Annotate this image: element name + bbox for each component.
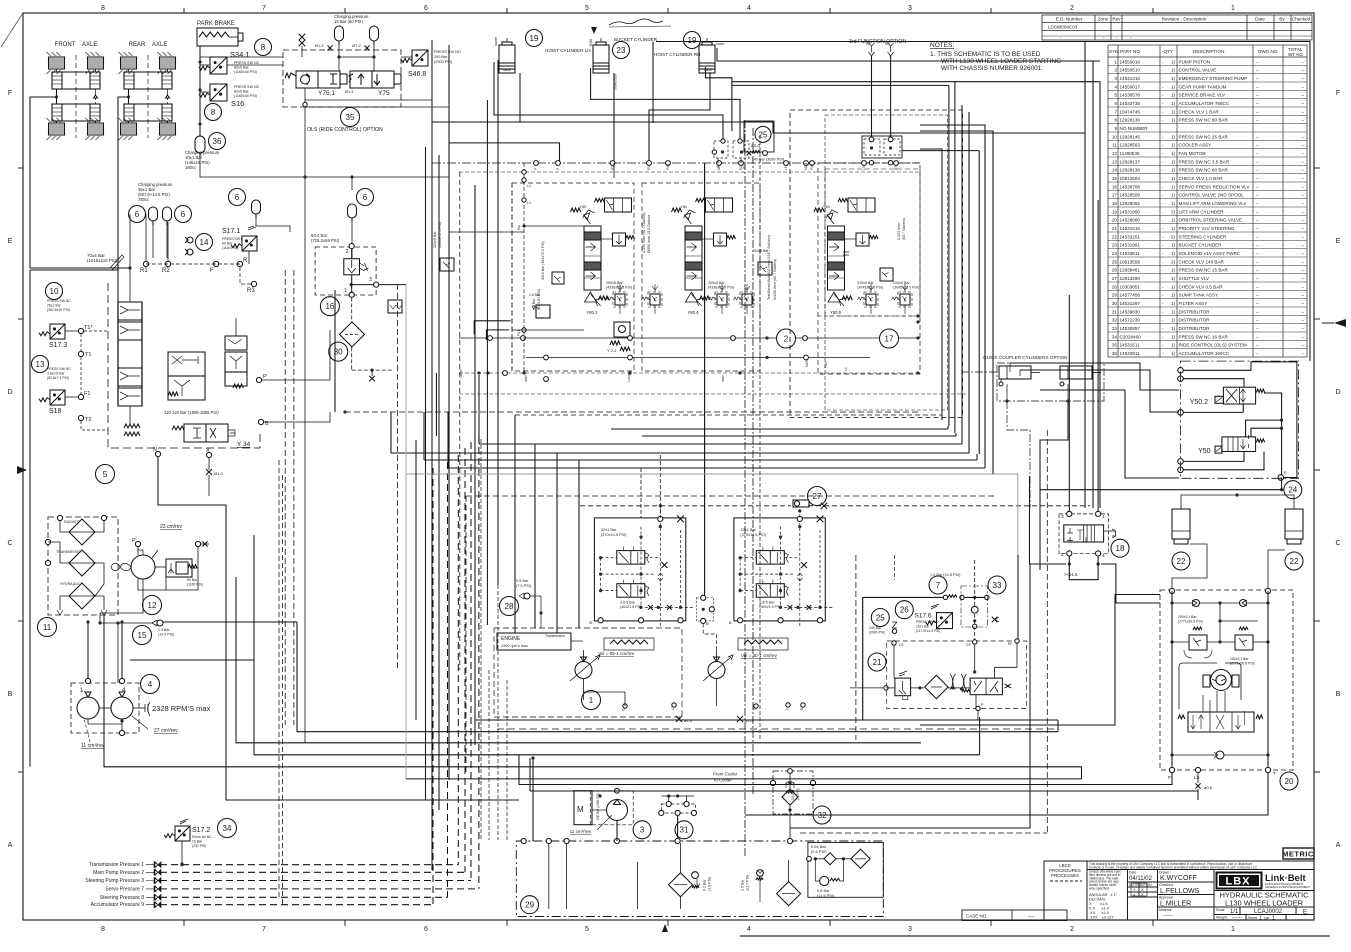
steering unit dashed box [1160, 590, 1293, 770]
svg-text:25: 25 [1112, 259, 1118, 264]
svg-text:(55 PSI): (55 PSI) [796, 788, 800, 800]
svg-text:14532811: 14532811 [1120, 351, 1141, 356]
rear axle wheels row 0 [119, 52, 137, 74]
internal dashed [740, 557, 756, 559]
spring [1256, 389, 1264, 392]
svg-text:C2028460: C2028460 [1120, 334, 1142, 339]
svg-text:19: 19 [1112, 209, 1118, 214]
wire vert x391 [390, 412, 392, 453]
svg-text:3.8 Bar: 3.8 Bar [791, 789, 795, 800]
wire nest y436 [642, 435, 956, 437]
hoist cylinder [600, 38, 602, 42]
dash-dot bus x745 [744, 120, 746, 858]
svg-text:1: 1 [1231, 5, 1235, 12]
front axle centerline [75, 55, 77, 138]
dash-dot bus x753 [752, 128, 754, 795]
svg-text:R: R [1284, 471, 1287, 475]
svg-text:WT KG: WT KG [1288, 52, 1303, 57]
svg-text:--: -- [1256, 76, 1260, 81]
svg-text:14528660: 14528660 [1120, 218, 1141, 223]
svg-text:--: -- [1256, 276, 1260, 281]
svg-text:17: 17 [1112, 193, 1118, 198]
svg-text:wise specified.: wise specified. [1089, 887, 1110, 891]
svg-text:(2.9 PSI): (2.9 PSI) [707, 877, 711, 891]
svg-text:14530857: 14530857 [1120, 326, 1141, 331]
svg-text:Lower: Lower [627, 372, 631, 382]
svg-text:6: 6 [135, 210, 140, 219]
relief valve 300a [715, 292, 729, 307]
svg-text:ACCUMULATOR 160CC: ACCUMULATOR 160CC [1179, 351, 1230, 356]
svg-text:X: X [1141, 892, 1144, 897]
svg-text:CHECK VLV 1 BAR: CHECK VLV 1 BAR [1179, 109, 1220, 114]
svg-text:0.5 Bar: 0.5 Bar [516, 579, 529, 583]
qc cylinder 1 [999, 366, 1031, 379]
svg-text:1): 1) [1171, 109, 1176, 114]
svg-text:(21.7 PSI): (21.7 PSI) [746, 875, 750, 891]
svg-text:Ø7.2: Ø7.2 [352, 43, 361, 48]
svg-text:Date: Date [1255, 17, 1265, 22]
svg-text:110-120 Bar (1595-1885 PSI): 110-120 Bar (1595-1885 PSI) [164, 410, 219, 415]
svg-text:Steering Pressure 8: Steering Pressure 8 [100, 895, 144, 901]
svg-text:------: ------ [1163, 913, 1173, 919]
valve section 2 boundary [642, 183, 760, 371]
steering cylinder [1172, 509, 1190, 539]
svg-text:14530578: 14530578 [1120, 93, 1141, 98]
sump tank boundary [516, 841, 883, 917]
svg-text:--: -- [1256, 268, 1260, 273]
svg-text:21: 21 [1112, 226, 1118, 231]
svg-text:--: -- [1301, 259, 1305, 264]
wire vert x557 [556, 453, 558, 633]
valve section 1 boundary [512, 183, 634, 371]
svg-text:17: 17 [885, 334, 894, 343]
svg-text:LCAJ0002: LCAJ0002 [1254, 909, 1283, 915]
circle 20 [1280, 772, 1298, 790]
section 4 pilot [685, 213, 692, 224]
upper dashed line [459, 171, 920, 173]
circle 15 + check [133, 626, 152, 645]
reducing valve [895, 678, 911, 696]
svg-text:Checked: Checked [1159, 883, 1173, 887]
wire fan drop [100, 596, 143, 623]
svg-text:200 Bar: 200 Bar [434, 55, 448, 59]
svg-text:(1160 PSI): (1160 PSI) [187, 583, 203, 587]
svg-text:3: 3 [1114, 76, 1117, 81]
bottom ports [598, 618, 603, 623]
svg-text:11 cm³/rev: 11 cm³/rev [81, 743, 105, 749]
servo solenoid valve [617, 584, 645, 598]
svg-text:--: -- [1301, 209, 1305, 214]
svg-text:14572230: 14572230 [1120, 318, 1141, 323]
svg-text:1): 1) [1171, 168, 1176, 173]
wire right mid verticals [1039, 495, 1041, 570]
valve section 17 boundary [818, 163, 920, 374]
svg-text:PRESS SW NC 3.5 BAR: PRESS SW NC 3.5 BAR [1179, 159, 1230, 164]
svg-text:--: -- [1301, 151, 1305, 156]
svg-text:16: 16 [1112, 184, 1118, 189]
hoist cylinder RH [684, 32, 701, 49]
svg-text:L3: L3 [862, 166, 866, 170]
svg-text:T1: T1 [85, 352, 91, 358]
svg-text:750cc: 750cc [138, 197, 149, 202]
svg-text:200±3.1 Bar: 200±3.1 Bar [1178, 615, 1197, 619]
svg-text:(63.7 Gal/min): (63.7 Gal/min) [902, 218, 906, 240]
svg-text:160cc: 160cc [185, 165, 196, 170]
svg-text:--: -- [1256, 351, 1260, 356]
svg-text:14531990: 14531990 [1120, 209, 1141, 214]
svg-text:(1015±116 PSI): (1015±116 PSI) [87, 258, 118, 263]
svg-text:--: -- [1301, 343, 1305, 348]
wires valve stack [129, 214, 131, 286]
svg-text:ANGULAR ± 1°: ANGULAR ± 1° [1089, 893, 1118, 897]
top dash-dot bus [432, 162, 920, 164]
cooler ports [57, 515, 62, 520]
svg-text:Sheet: Sheet [1248, 916, 1257, 920]
main pump 2 [708, 662, 725, 679]
ports [1067, 511, 1072, 516]
svg-text:(2771±50.8 PSI): (2771±50.8 PSI) [1178, 620, 1203, 624]
accumulator [348, 204, 357, 218]
svg-text:2: 2 [1070, 926, 1074, 933]
svg-text:PRESS SW NC 80 BAR: PRESS SW NC 80 BAR [1179, 118, 1229, 123]
svg-text:FILTER ASSY: FILTER ASSY [1179, 301, 1208, 306]
svg-text:(725.2±58 PSI): (725.2±58 PSI) [311, 238, 340, 243]
svg-text:PRESS SW NC 80 BAR: PRESS SW NC 80 BAR [1179, 168, 1229, 173]
svg-text:5: 5 [585, 5, 589, 12]
svg-text:Approval: Approval [1159, 896, 1173, 900]
port X [206, 452, 211, 457]
control valve section 2 spool [584, 226, 601, 290]
svg-text:E2: E2 [743, 165, 747, 169]
centering marks [591, 27, 597, 34]
svg-text:4: 4 [148, 680, 153, 689]
svg-text:140 Bar (3030 PSI): 140 Bar (3030 PSI) [752, 158, 785, 162]
circle 6 [175, 206, 192, 223]
svg-text:DISTRIBUTOR: DISTRIBUTOR [1179, 309, 1211, 314]
svg-text:23: 23 [1112, 243, 1118, 248]
bottom extra line [740, 935, 1330, 937]
svg-text:(11.5 PSI): (11.5 PSI) [817, 893, 835, 898]
svg-text:PROCESSES: PROCESSES [1051, 873, 1079, 878]
svg-text:14577458: 14577458 [1120, 293, 1141, 298]
wire vert x535 [534, 444, 536, 628]
svg-text:--: -- [1301, 243, 1305, 248]
side rails [1171, 591, 1173, 770]
wire x1030 down [790, 564, 1030, 828]
svg-text:(4336±72.5 PSI): (4336±72.5 PSI) [606, 286, 632, 290]
dash-dot boundary 24 [1181, 361, 1299, 478]
relief valve 300b [740, 292, 754, 307]
wire port3 up [1068, 295, 1070, 511]
wire port1 up [1097, 200, 1099, 511]
svg-text:10: 10 [1112, 134, 1118, 139]
steering cylinder [1285, 509, 1303, 539]
relief lever [110, 255, 124, 270]
filter diamond [925, 675, 948, 698]
svg-text:31: 31 [1112, 309, 1118, 314]
svg-text:C: C [1335, 540, 1340, 547]
svg-text:--: -- [1301, 234, 1305, 239]
circle 4 [141, 675, 160, 694]
svg-text:14531297: 14531297 [1120, 301, 1141, 306]
left bus lines [431, 40, 433, 870]
accumulator [370, 26, 379, 41]
pump 2 [111, 697, 133, 719]
svg-text:(0.6 PSI): (0.6 PSI) [811, 849, 827, 854]
svg-text:11490536: 11490536 [1120, 151, 1141, 156]
servo group box [594, 518, 685, 621]
svg-text:1): 1) [1171, 159, 1176, 164]
svg-text:Wp: Wp [517, 225, 521, 230]
svg-text:lower: lower [716, 42, 725, 46]
fan box [130, 659, 254, 661]
svg-text:3: 3 [369, 277, 372, 283]
svg-text:QUICK COUPLER CYLINDERS OPTION: QUICK COUPLER CYLINDERS OPTION [983, 355, 1068, 360]
svg-text:PRESS SW NC: PRESS SW NC [234, 61, 260, 65]
svg-text:29: 29 [525, 901, 534, 910]
svg-text:S17.2: S17.2 [192, 827, 210, 834]
svg-text:Date: Date [1129, 871, 1136, 875]
svg-text:(7.3 PSI): (7.3 PSI) [516, 584, 532, 588]
svg-text:6: 6 [363, 193, 368, 202]
circle 18 [1111, 539, 1129, 557]
svg-text:--: -- [1256, 193, 1260, 198]
dashed rows lower [459, 393, 966, 395]
tank internal verticals [548, 843, 550, 909]
wire nest y429 [611, 428, 948, 430]
svg-text:(1160±40 PSI): (1160±40 PSI) [234, 70, 257, 74]
svg-text:14533738: 14533738 [1120, 101, 1141, 106]
accumulator [335, 26, 344, 41]
svg-text:--: -- [1256, 201, 1260, 206]
svg-text:30: 30 [1112, 301, 1118, 306]
wire S34 right to OLS [227, 64, 283, 66]
svg-text:28: 28 [1112, 284, 1118, 289]
svg-text:34: 34 [223, 824, 232, 833]
port N [155, 451, 160, 456]
orifice 0.8 [1195, 783, 1200, 788]
svg-text:04/11/02: 04/11/02 [1129, 876, 1153, 882]
wire top right x1100 [955, 82, 1100, 508]
svg-text:F: F [210, 268, 214, 274]
wire bucket raise [613, 73, 615, 163]
pump control spring [744, 640, 782, 644]
section 5 pilot [827, 213, 834, 224]
svg-text:A2: A2 [716, 164, 720, 168]
extra verticals left [284, 270, 286, 725]
svg-text:9: 9 [1114, 126, 1117, 131]
svg-text:29: 29 [1112, 293, 1118, 298]
circle 28 + check [500, 597, 519, 616]
svg-text:200±5 Bar: 200±5 Bar [606, 281, 623, 285]
scribble note [609, 19, 663, 25]
rear axle housing row 1 [124, 104, 172, 121]
svg-text:14531991: 14531991 [1120, 243, 1141, 248]
section 4 bypass valve [706, 198, 733, 212]
svg-text:><ø1.6: ><ø1.6 [1064, 572, 1078, 577]
pilot dashed vertical x524 [523, 163, 525, 373]
svg-text:34: 34 [1112, 334, 1118, 339]
svg-text:1): 1) [1171, 301, 1176, 306]
rear axle wheels row 1 [119, 118, 137, 140]
svg-text:(2171±50.8 PSI): (2171±50.8 PSI) [1230, 662, 1255, 666]
stack springs [124, 424, 140, 428]
svg-text:1): 1) [1171, 243, 1176, 248]
svg-text:2: 2 [1070, 5, 1074, 12]
circle 2 [777, 329, 796, 348]
svg-text:--: -- [1301, 318, 1305, 323]
svg-text:L1: L1 [527, 184, 531, 188]
main pump 1 [575, 662, 592, 679]
circle 17 [880, 329, 899, 348]
svg-text:12: 12 [1112, 151, 1118, 156]
pressure switch S46.8 [401, 50, 428, 66]
svg-text:10613558: 10613558 [1120, 259, 1141, 264]
wire hoist LH lower [494, 62, 723, 141]
svg-text:--: -- [1301, 68, 1305, 73]
svg-text:200±5 Bar: 200±5 Bar [753, 249, 769, 253]
svg-text:EMERGENCY STEERING PUMP: EMERGENCY STEERING PUMP [1179, 76, 1248, 81]
wire bus y720 [475, 719, 1058, 721]
svg-text:--: -- [1301, 276, 1305, 281]
R1 R2 ports [143, 261, 148, 266]
svg-text:26: 26 [900, 606, 909, 615]
svg-text:10812504: 10812504 [1120, 176, 1141, 181]
wire Y50 region left [1010, 363, 1179, 390]
wire vert x466 dash [465, 496, 467, 772]
svg-text:24: 24 [1288, 486, 1297, 495]
section 5 compensator [856, 233, 869, 246]
svg-text:5: 5 [1114, 93, 1117, 98]
vent X [677, 516, 684, 523]
cooler wires [60, 521, 69, 532]
svg-text:LBX: LBX [1226, 876, 1251, 888]
port P [135, 541, 140, 546]
servo group box [734, 518, 825, 621]
svg-text:(2900 PSI): (2900 PSI) [434, 60, 453, 64]
spring right [1104, 529, 1116, 538]
svg-text:Y75.1: Y75.1 [318, 90, 335, 97]
circle 21 [868, 653, 886, 671]
svg-text:MA3: MA3 [805, 360, 809, 367]
check 32 [773, 771, 813, 814]
wire qc left [962, 371, 997, 373]
svg-text:crowd back: crowd back [614, 73, 618, 90]
svg-text:2): 2) [1171, 259, 1176, 264]
wire nest y474 [406, 473, 993, 475]
svg-text:3: 3 [1061, 514, 1064, 520]
svg-text:--: -- [1256, 143, 1260, 148]
Y50 valve [1222, 437, 1256, 452]
svg-text:15: 15 [1112, 176, 1118, 181]
section 4 main relief [686, 292, 698, 302]
svg-text:33: 33 [993, 581, 1002, 590]
circle 12 [143, 596, 162, 615]
ports on top bus [534, 161, 539, 166]
svg-text:raise: raise [524, 375, 528, 382]
svg-text:B: B [729, 620, 732, 625]
svg-text:--: -- [1256, 343, 1260, 348]
solenoid dashed pair [714, 141, 728, 158]
svg-text:GEAR PUMP TANDUM: GEAR PUMP TANDUM [1179, 84, 1227, 89]
relief valve right [1239, 627, 1248, 630]
svg-text:--: -- [1301, 251, 1305, 256]
circle 13 [32, 356, 49, 373]
dash line y505.8 [580, 505, 791, 507]
svg-text:OF: OF [1264, 916, 1270, 921]
front axle wheels row 0 [47, 52, 65, 74]
svg-text:1.5 Bar: 1.5 Bar [741, 879, 745, 891]
svg-text:raise: raise [721, 375, 725, 382]
svg-text:S17.1: S17.1 [222, 228, 240, 235]
svg-text:300±5 Bar: 300±5 Bar [708, 281, 725, 285]
park brake cylinder [197, 28, 238, 46]
wire axle brake lines [30, 97, 57, 268]
svg-text:F: F [8, 90, 12, 97]
filter 2 [777, 882, 801, 906]
servo solenoid valve [756, 584, 784, 598]
svg-text:1): 1) [1171, 343, 1176, 348]
svg-text:8: 8 [1114, 118, 1117, 123]
bottom ports [738, 618, 743, 623]
circle 3 [633, 821, 651, 839]
wire hoist LH raise [432, 73, 520, 122]
shuttle valve 27 [793, 500, 809, 507]
gray ext to EF [993, 474, 1018, 555]
svg-text:PRESS SW NO: PRESS SW NO [916, 620, 939, 624]
tank top ports [521, 838, 526, 843]
svg-text:--: -- [1256, 168, 1260, 173]
accumulator [163, 207, 172, 221]
svg-text:31: 31 [680, 826, 689, 835]
big dashed enclosure 5 [108, 283, 158, 448]
wire park brake down [199, 46, 201, 136]
svg-text:------: ------ [1232, 915, 1242, 921]
svg-text:10303851: 10303851 [1120, 284, 1141, 289]
svg-text:PRESS SW NC 16 BAR: PRESS SW NC 16 BAR [1179, 334, 1229, 339]
manifold 31 [661, 804, 695, 813]
svg-text:14531516: 14531516 [1120, 226, 1141, 231]
svg-text:--: -- [1256, 243, 1260, 248]
reducing valve 16 [315, 247, 376, 295]
svg-text:Drawn: Drawn [1159, 871, 1169, 875]
svg-text:OLS (RIDE CONTROL) OPTION: OLS (RIDE CONTROL) OPTION [307, 127, 383, 133]
pump suction risers [87, 622, 89, 678]
svg-text:By: By [1279, 17, 1285, 22]
qc dashed box [997, 363, 1104, 401]
svg-text:(1160 PSI): (1160 PSI) [222, 246, 238, 250]
svg-text:Y80.4: Y80.4 [688, 310, 700, 315]
svg-text:--: -- [1301, 334, 1305, 339]
wire bus y742 [236, 577, 921, 743]
svg-text:13: 13 [1112, 159, 1118, 164]
filter 1 [669, 873, 693, 897]
wire 15 [100, 622, 152, 624]
dash bus x760 [759, 135, 761, 740]
svg-text:28: 28 [505, 602, 514, 611]
svg-text:7: 7 [262, 5, 266, 12]
svg-text:5: 5 [103, 470, 108, 479]
svg-text:SERVO PRESS REDUCTION VLV: SERVO PRESS REDUCTION VLV [1179, 184, 1251, 189]
svg-text:14531511: 14531511 [1120, 343, 1141, 348]
svg-text:T2: T2 [85, 417, 91, 423]
svg-text:3.8-5 Bar: 3.8-5 Bar [760, 601, 776, 605]
svg-text:10: 10 [50, 287, 59, 296]
relief block [166, 559, 192, 577]
svg-text:24: 24 [1112, 251, 1118, 256]
svg-text:150±3.1 Bar: 150±3.1 Bar [1230, 657, 1249, 661]
svg-text:--: -- [1301, 284, 1305, 289]
